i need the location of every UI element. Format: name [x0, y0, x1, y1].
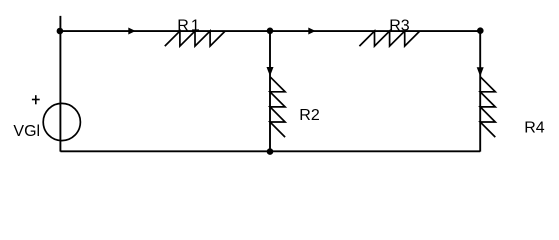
svg-text:VGl: VGl	[13, 123, 40, 140]
wire middle vertical	[269, 31, 271, 152]
node at top-left junction	[57, 28, 64, 35]
current arrow on top wire (right)	[308, 28, 315, 35]
wire left vertical	[59, 16, 61, 152]
wire right vertical	[479, 31, 481, 152]
current arrow on right branch (down)	[477, 67, 484, 76]
svg-text:R3: R3	[389, 18, 410, 35]
resistor R3 sawtooth	[359, 31, 419, 46]
wire bottom horizontal	[60, 150, 480, 152]
svg-text:R4: R4	[524, 119, 545, 136]
node at top-middle junction	[267, 28, 274, 35]
node at bottom-middle junction	[267, 148, 274, 155]
resistor R2 sawtooth	[270, 77, 285, 137]
voltage source VGl circle	[43, 103, 80, 140]
current arrow on middle branch (down)	[267, 67, 274, 76]
resistor R1 sawtooth	[165, 31, 225, 46]
node at top-right junction	[477, 27, 484, 34]
svg-text:R1: R1	[177, 18, 200, 35]
resistor R4 sawtooth	[480, 77, 495, 137]
current arrow on top wire (left)	[128, 28, 135, 35]
plus sign of source	[32, 95, 40, 104]
svg-text:R2: R2	[299, 107, 320, 124]
wire top horizontal	[60, 30, 480, 32]
